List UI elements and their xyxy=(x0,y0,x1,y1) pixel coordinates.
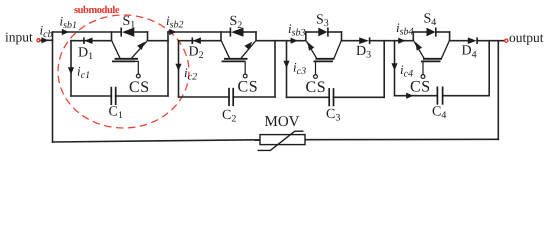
capacitor C4 xyxy=(437,87,442,105)
wire: SM2 D2 wire xyxy=(179,40,222,42)
transistor S3 (IGBT) xyxy=(307,41,342,79)
input terminal circle xyxy=(37,39,40,42)
svg-text:submodule: submodule xyxy=(74,5,120,16)
wire: outer left vertical xyxy=(52,32,54,142)
arrow icb (input current) xyxy=(41,37,48,43)
wire: SM3 bridge step down xyxy=(341,32,343,41)
wire: SM3 bridge left part xyxy=(306,31,319,33)
wire: SM3 right vertical xyxy=(383,41,385,98)
wire: top rail input to SM1 xyxy=(53,31,122,33)
wire: SM4 bottom wire right xyxy=(443,95,490,97)
arrow isb4 xyxy=(398,38,405,44)
arrow isb2 xyxy=(169,29,176,35)
wire: SM4 right vertical xyxy=(488,41,490,96)
wire: SM1 bottom wire left xyxy=(71,95,111,97)
wire: SM2 bottom wire left xyxy=(179,96,230,98)
svg-text:CS: CS xyxy=(238,79,259,96)
arrow isb1 xyxy=(62,29,69,35)
wire: SM4 bridge step up xyxy=(412,32,414,41)
wire: SM2 collector stub xyxy=(220,32,222,41)
arrow ic2 xyxy=(175,64,181,71)
wire: SM2 rail-end step down xyxy=(255,32,257,41)
wire: SM2 rail S2 diode to rail end xyxy=(244,31,256,33)
wire: SM1 exit wire xyxy=(148,40,169,42)
wire: SM1 rail-end step down xyxy=(147,32,149,41)
svg-text:CS: CS xyxy=(129,79,150,96)
wire: D4 to output xyxy=(477,40,504,42)
emitter arrow S3 xyxy=(308,42,315,51)
wire: SM1 collector stub xyxy=(111,32,113,41)
transistor S4 (IGBT) xyxy=(414,41,449,79)
wire: SM2 left vertical xyxy=(178,41,180,97)
capacitor C1 xyxy=(111,87,115,105)
diode D4 xyxy=(468,37,477,44)
transistor S2 (IGBT) xyxy=(221,41,255,78)
wire: SM4 left vertical xyxy=(394,41,396,96)
wire: SM3 bottom wire left xyxy=(287,96,330,98)
emitter arrow S2 xyxy=(244,42,252,50)
arrow isb3 xyxy=(291,38,298,44)
capacitor C3 xyxy=(329,88,333,106)
arrow ic4 xyxy=(391,63,397,70)
wire: SM3 bridge step up xyxy=(305,32,307,41)
arrow ic1 xyxy=(68,67,74,74)
transistor S1 (IGBT) xyxy=(112,41,147,78)
wire: SM3 bottom wire right xyxy=(334,96,385,98)
capacitor C2 xyxy=(229,88,233,106)
emitter arrow S1 xyxy=(137,42,145,50)
wire: SM1 bottom wire right xyxy=(116,95,168,97)
diode D3 xyxy=(359,37,369,44)
svg-text:input: input xyxy=(5,30,33,45)
wire: SM1 rail S1 diode to rail end xyxy=(135,31,148,33)
wire: SM2 right vertical xyxy=(274,41,276,97)
arrow ic3 xyxy=(283,61,289,68)
diode D1 xyxy=(84,37,93,44)
diode D2 xyxy=(192,37,201,44)
output terminal circle xyxy=(505,39,508,42)
wire: SM2 bottom wire right xyxy=(233,96,275,98)
switch S4 antiparallel diode xyxy=(427,28,436,37)
wire: input stub xyxy=(40,39,53,41)
wire: bottom rail right of MOV xyxy=(305,138,498,140)
wire: SM2 exit to SM3 bridge xyxy=(256,40,306,42)
wire: SM4 bridge step down xyxy=(449,32,451,41)
wire: SM4 bridge right part xyxy=(436,31,450,33)
wire: outer right vertical xyxy=(497,41,499,140)
emitter arrow S4 xyxy=(415,42,422,51)
wire: SM4 D4 wire xyxy=(450,40,468,42)
red dashed submodule ellipse xyxy=(58,15,189,128)
svg-text:CS: CS xyxy=(306,79,327,96)
wire: D3 to SM4 bridge xyxy=(370,40,414,42)
wire: SM3 bridge right part xyxy=(328,31,342,33)
svg-text:output: output xyxy=(509,30,544,45)
wire: SM1 right vertical xyxy=(167,32,169,96)
wire: SM3 left vertical xyxy=(286,41,288,98)
wire: SM3 D3 wire and rail to SM4 xyxy=(342,40,360,42)
svg-text:CS: CS xyxy=(410,78,431,95)
wire: rail SM1 to SM2 xyxy=(168,31,230,33)
wire: SM1 D1 wire xyxy=(71,40,112,42)
switch S3 antiparallel diode xyxy=(318,28,328,37)
switch S1 antiparallel diode xyxy=(121,28,134,37)
MOV varistor diagonal xyxy=(258,131,304,150)
svg-text:MOV: MOV xyxy=(265,114,300,130)
arrow SM4 bottom wire xyxy=(406,93,413,99)
wire: SM1 left vertical xyxy=(70,41,72,96)
wire: SM4 bridge left part xyxy=(413,31,426,33)
wire: bottom rail left of MOV xyxy=(53,140,261,142)
wire: SM4 bottom wire left xyxy=(395,95,438,97)
MOV box xyxy=(260,135,305,145)
switch S2 antiparallel diode xyxy=(230,28,243,37)
